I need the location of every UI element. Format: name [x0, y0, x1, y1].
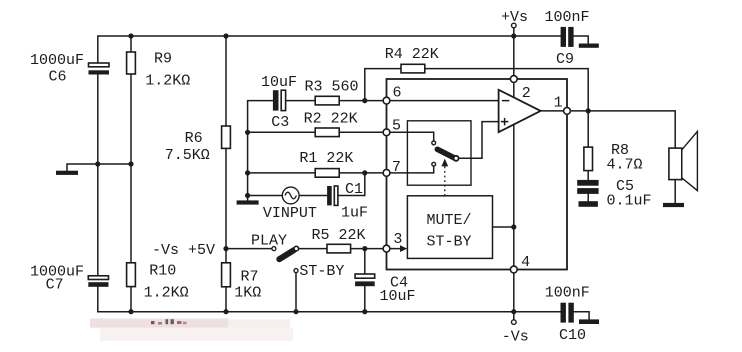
svg-text:R5 22K: R5 22K	[312, 227, 366, 244]
svg-text:5: 5	[392, 117, 401, 134]
svg-text:C9: C9	[556, 51, 574, 68]
svg-text:4: 4	[521, 254, 530, 271]
svg-text:C6: C6	[49, 69, 67, 86]
svg-text:ST-BY: ST-BY	[299, 263, 344, 280]
svg-text:7: 7	[392, 159, 401, 176]
svg-text:-Vs: -Vs	[502, 328, 529, 345]
svg-text:4.7Ω: 4.7Ω	[607, 157, 643, 174]
svg-text:10uF: 10uF	[380, 288, 416, 305]
svg-text:C3: C3	[271, 114, 289, 131]
svg-text:R3 560: R3 560	[305, 78, 359, 95]
svg-text:1uF: 1uF	[341, 205, 368, 222]
svg-text:MUTE/: MUTE/	[427, 212, 472, 229]
svg-text:3: 3	[393, 231, 402, 248]
svg-text:R7: R7	[241, 269, 259, 286]
svg-text:R1 22K: R1 22K	[299, 150, 353, 167]
svg-text:R9: R9	[154, 51, 172, 68]
svg-text:PLAY: PLAY	[251, 233, 287, 250]
svg-text:R10: R10	[149, 263, 176, 280]
svg-text:100nF: 100nF	[545, 285, 590, 302]
svg-text:R2 22K: R2 22K	[304, 111, 358, 128]
svg-text:C1: C1	[345, 181, 363, 198]
svg-text:1: 1	[554, 94, 563, 111]
svg-text:R4 22K: R4 22K	[385, 46, 439, 63]
svg-text:6: 6	[393, 85, 402, 102]
svg-text:1KΩ: 1KΩ	[234, 285, 261, 302]
svg-text:1.2KΩ: 1.2KΩ	[144, 285, 189, 302]
svg-text:10uF: 10uF	[261, 74, 297, 91]
svg-text:1.2KΩ: 1.2KΩ	[145, 72, 190, 89]
svg-text:100nF: 100nF	[545, 9, 590, 26]
svg-text:+Vs: +Vs	[501, 9, 528, 26]
svg-text:1000uF: 1000uF	[30, 52, 84, 69]
svg-text:C7: C7	[46, 276, 64, 293]
svg-text:VINPUT: VINPUT	[263, 205, 317, 222]
svg-text:2: 2	[522, 85, 531, 102]
svg-text:C10: C10	[559, 327, 586, 344]
svg-text:-Vs +5V: -Vs +5V	[152, 242, 215, 259]
svg-text:0.1uF: 0.1uF	[607, 193, 652, 210]
svg-text:R6: R6	[185, 130, 203, 147]
svg-text:ST-BY: ST-BY	[427, 234, 472, 251]
svg-text:7.5KΩ: 7.5KΩ	[165, 147, 210, 164]
